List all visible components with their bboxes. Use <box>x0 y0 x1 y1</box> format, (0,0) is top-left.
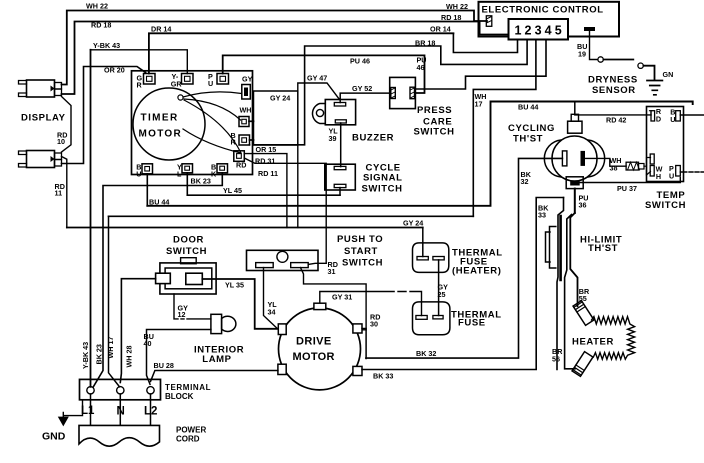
svg-text:GY 52: GY 52 <box>352 84 372 93</box>
stub BR terminal to aux box <box>250 139 254 141</box>
svg-text:HEATER: HEATER <box>572 336 614 347</box>
wire PU 37 (to temp switch PU area) <box>575 178 681 183</box>
heater element coil <box>592 317 635 360</box>
terminal YL <box>182 164 193 173</box>
dryness sensor contact 1 <box>598 57 603 62</box>
svg-text:40: 40 <box>144 339 152 348</box>
wire YL 39 (buzzer bottom to cycle signal switch) <box>340 123 342 167</box>
RIGHT <box>362 102 704 377</box>
svg-text:OR 14: OR 14 <box>430 25 451 34</box>
buzzer BZ1 <box>313 100 356 125</box>
svg-text:U: U <box>669 171 674 180</box>
svg-text:START: START <box>344 246 378 257</box>
svg-text:19: 19 <box>578 49 586 58</box>
wire BK 32 (cycling left terminal down) <box>366 158 563 358</box>
svg-text:U: U <box>208 79 213 88</box>
svg-text:R: R <box>137 81 143 90</box>
riser GY 24 down to thermal fuse <box>422 228 424 257</box>
resistor to temp switch links <box>644 158 651 176</box>
temp switch terminal PU <box>676 166 704 177</box>
heater terminal bottom (BR 56) <box>572 352 593 377</box>
svg-text:34: 34 <box>268 308 276 317</box>
svg-text:30: 30 <box>370 320 378 329</box>
svg-text:12: 12 <box>178 310 186 319</box>
thermal fuse (heater) F1 <box>413 243 449 273</box>
wire PU 36 / PU 37 from cycling bottom <box>574 189 576 213</box>
bus RD 11 / GY 24 (long bottom bus) <box>67 227 423 229</box>
svg-text:BK 23: BK 23 <box>191 176 211 185</box>
svg-text:CORD: CORD <box>176 434 200 443</box>
wires to power cord <box>91 394 151 425</box>
terminal RD <box>234 151 245 162</box>
wire EC terminal 4 to press care switch right <box>415 40 546 90</box>
svg-text:GN: GN <box>663 70 674 79</box>
timer cam pivot <box>178 95 183 100</box>
svg-text:RD 18: RD 18 <box>91 21 111 30</box>
wire BU 19 (flat terminal down to dryness sensor) <box>590 31 598 60</box>
svg-text:DRIVE: DRIVE <box>296 336 332 348</box>
svg-text:SWITCH: SWITCH <box>166 246 207 257</box>
svg-text:39: 39 <box>329 134 337 143</box>
bus YL 45 (timer YL to cycle signal switch) <box>187 194 340 196</box>
svg-text:BK 33: BK 33 <box>373 371 393 380</box>
wire RD 31 diag (push-to-start right up) <box>308 263 326 264</box>
svg-text:10: 10 <box>57 137 65 146</box>
wire Y-BK 43 top run (to timer Y-GR terminal) <box>91 50 188 74</box>
terminal WH <box>239 117 249 127</box>
wire RD 30 (push-to-start right down to motor) <box>301 268 367 330</box>
TIMER <box>94 40 528 387</box>
svg-text:POWER: POWER <box>176 425 206 434</box>
svg-text:TH'ST: TH'ST <box>588 243 618 254</box>
wire GY 31 (motor top to thermal fuse lower) <box>320 292 422 316</box>
svg-text:SENSOR: SENSOR <box>592 85 636 96</box>
cycling thermostat TH1 <box>544 114 604 188</box>
power cord <box>79 425 160 446</box>
svg-text:N: N <box>117 406 125 418</box>
svg-text:DR 14: DR 14 <box>151 25 171 34</box>
wire GY 47 (aux box corner to buzzer) <box>298 83 340 100</box>
terminal BK <box>217 164 228 173</box>
svg-text:RD 42: RD 42 <box>606 115 626 124</box>
svg-text:U: U <box>670 115 675 124</box>
push to start switch S4 <box>247 250 319 270</box>
wire BK 23 (timer BK terminal down-left to terminal block) <box>94 173 223 387</box>
svg-text:ELECTRONIC CONTROL: ELECTRONIC CONTROL <box>482 5 604 16</box>
temp switch terminal WH <box>650 166 654 177</box>
wire Y-BK 43 (vertical to terminal block L1) <box>90 50 92 387</box>
svg-text:L2: L2 <box>144 406 157 418</box>
svg-text:CYCLING: CYCLING <box>508 123 555 134</box>
svg-text:GY 24: GY 24 <box>403 219 423 228</box>
wire RD timer terminal right run (RD 11 riser) <box>244 154 287 228</box>
svg-text:25: 25 <box>438 290 446 299</box>
resistor KKK <box>626 162 644 170</box>
hi-limit thermostat TH2 <box>546 198 578 370</box>
svg-text:GY 24: GY 24 <box>270 94 290 103</box>
door switch S3 <box>156 258 216 294</box>
svg-text:55: 55 <box>579 294 587 303</box>
wire BU 40 (lamp to terminal block L2) <box>147 330 211 385</box>
wire BK 32 stub (motor upper-right) <box>362 329 366 359</box>
svg-text:36: 36 <box>579 201 587 210</box>
wire BU 44 (timer BU terminal down to bus) <box>146 174 148 206</box>
svg-text:LAMP: LAMP <box>202 354 231 365</box>
svg-text:33: 33 <box>538 211 546 220</box>
svg-text:12345: 12345 <box>515 24 565 38</box>
svg-text:BK 32: BK 32 <box>416 349 436 358</box>
svg-text:BK 23: BK 23 <box>95 344 104 364</box>
display connector J2 <box>19 151 62 168</box>
svg-text:WH: WH <box>240 106 252 115</box>
temp switch terminal BU <box>676 111 704 121</box>
svg-text:38: 38 <box>610 163 618 172</box>
wire BK 33 (hi-limit to motor bus) <box>362 198 563 370</box>
svg-text:H: H <box>656 172 661 181</box>
bus BU 44 (timer BU right, up, to cycling thermostat) <box>147 102 692 206</box>
svg-text:TIMER: TIMER <box>141 113 179 124</box>
wire BU44 into cycling stem <box>574 102 576 115</box>
svg-text:WH 28: WH 28 <box>125 346 134 368</box>
wire YL 34 (push-to-start left to motor) <box>264 268 277 328</box>
ECONTROL <box>415 2 662 217</box>
svg-text:BU 28: BU 28 <box>154 361 174 370</box>
heater terminal top (BR 55) <box>573 301 594 326</box>
EC terminal strip 1 2 3 4 5 <box>509 19 569 40</box>
svg-text:DISPLAY: DISPLAY <box>21 113 66 124</box>
wire WH 17 (EC terminal 3 down-left-down to bus) <box>473 40 536 217</box>
svg-text:D: D <box>656 114 661 123</box>
svg-text:U: U <box>136 169 141 178</box>
terminal BR <box>239 135 250 145</box>
svg-text:PU 37: PU 37 <box>617 184 637 193</box>
BUZZER-PCS-CSS <box>313 77 416 194</box>
svg-text:GR: GR <box>171 80 183 89</box>
electronic control box <box>479 2 620 37</box>
wire RD 31 (timer RD terminal to push-to-start) <box>244 158 326 263</box>
svg-text:Y-BK 43: Y-BK 43 <box>81 342 90 369</box>
svg-text:WH 22: WH 22 <box>446 2 468 11</box>
svg-text:OR 20: OR 20 <box>104 66 125 75</box>
svg-text:YL 45: YL 45 <box>223 186 242 195</box>
svg-text:11: 11 <box>55 189 63 198</box>
terminal BU <box>142 164 153 174</box>
svg-text:BU 44: BU 44 <box>518 103 538 112</box>
svg-text:R: R <box>231 137 237 146</box>
EC input terminal (hatched) <box>486 16 492 26</box>
wire PU 46 (timer PU up, right, down to press care switch) <box>223 55 425 93</box>
wire RD 11 (connector J2 down to bus) <box>62 157 67 228</box>
wire YL 45 (timer YL terminal down to bus) <box>186 173 188 195</box>
temp switch terminal mid-left <box>650 154 654 164</box>
svg-text:PRESS: PRESS <box>417 105 452 116</box>
svg-text:DOOR: DOOR <box>173 235 204 246</box>
svg-text:TERMINAL: TERMINAL <box>165 383 211 392</box>
wire DR 14 (timer GR terminal up and right) <box>149 33 454 73</box>
wire GY 25 (fuse to fuse) <box>438 260 440 316</box>
svg-text:OR 15: OR 15 <box>256 145 277 154</box>
svg-text:RD 18: RD 18 <box>441 13 461 22</box>
wire WH 38 (cycling right terminal to resistor) <box>585 158 626 166</box>
wire BK 33 stub (motor lower-right) <box>361 369 363 371</box>
terminal PU <box>217 74 229 85</box>
wire BU 28 (motor lower-left to terminal block L2) <box>151 371 278 382</box>
aux switch box GY24 <box>254 91 298 145</box>
wire door switch left (WH 28 to terminal block N) <box>120 279 155 383</box>
ground GN <box>647 81 662 95</box>
svg-text:RD: RD <box>236 160 246 169</box>
svg-text:BR 18: BR 18 <box>415 38 435 47</box>
svg-text:GY: GY <box>242 75 253 84</box>
riser WH 17 down to terminal block N <box>109 216 120 386</box>
wire RD 10 (connector J1 to connector J2) <box>62 97 72 153</box>
svg-text:FUSE: FUSE <box>458 318 486 329</box>
svg-text:GND: GND <box>42 430 66 442</box>
svg-text:PU 46: PU 46 <box>350 57 370 66</box>
svg-text:GY 31: GY 31 <box>332 293 352 302</box>
terminal GY <box>242 85 251 100</box>
wire RD 42 (cycling stem to temp switch RD) <box>575 114 651 116</box>
svg-text:RD 11: RD 11 <box>258 169 278 178</box>
terminal block TB1 <box>80 379 161 399</box>
wire YL 35 (door switch to drive motor) <box>202 279 279 329</box>
wire WH 22 (connector J1 to electronic control) <box>62 11 488 85</box>
BU19 flat terminal <box>585 28 595 31</box>
thermal fuse F2 <box>413 302 450 335</box>
svg-text:32: 32 <box>521 177 529 186</box>
svg-text:BU 44: BU 44 <box>149 197 169 206</box>
drive motor M1 <box>278 303 362 390</box>
svg-text:31: 31 <box>328 267 336 276</box>
svg-text:SWITCH: SWITCH <box>414 127 455 138</box>
terminal Y-GR <box>182 74 194 85</box>
svg-text:K: K <box>211 169 217 178</box>
svg-text:WH 17: WH 17 <box>106 337 115 359</box>
dryness sensor arm 2 <box>644 66 655 80</box>
cycle signal switch S2 <box>325 164 356 195</box>
stub WH terminal to aux box <box>249 120 254 122</box>
wire GY 12 (door switch down to lamp) <box>174 294 211 319</box>
svg-text:17: 17 <box>475 99 483 108</box>
wire OR 14 (down from line to EC terminal 1) <box>453 33 517 52</box>
svg-text:L1: L1 <box>81 405 95 417</box>
svg-text:46: 46 <box>417 63 425 72</box>
wire BR 18 (timer BR terminal right, up to EC terminal 2) <box>250 40 528 145</box>
bus WH 17 (terminal block N to EC drop) <box>109 215 474 217</box>
svg-text:SWITCH: SWITCH <box>342 257 383 268</box>
svg-text:WH 22: WH 22 <box>86 2 108 11</box>
wire GY 52 (buzzer top to press care switch left) <box>340 93 390 103</box>
svg-text:BLOCK: BLOCK <box>165 392 194 401</box>
svg-text:MOTOR: MOTOR <box>293 351 335 363</box>
svg-text:Y-BK 43: Y-BK 43 <box>93 41 120 50</box>
svg-text:56: 56 <box>552 354 560 363</box>
ground GND symbol <box>63 400 82 420</box>
WIRES-TOPLEFT <box>19 11 510 387</box>
temp switch terminal RD <box>650 111 655 121</box>
wire RD 18 (connector J1 to electronic control box) <box>62 22 510 95</box>
interior lamp DS1 <box>211 314 236 333</box>
svg-text:SIGNAL: SIGNAL <box>363 173 403 184</box>
svg-text:(HEATER): (HEATER) <box>452 266 501 277</box>
timer cam wires <box>183 92 242 97</box>
svg-text:TH'ST: TH'ST <box>513 133 543 144</box>
BUSES <box>67 102 693 387</box>
svg-text:PUSH TO: PUSH TO <box>337 234 383 245</box>
svg-text:GY 47: GY 47 <box>307 73 327 82</box>
svg-text:SWITCH: SWITCH <box>362 184 403 195</box>
terminal GR <box>144 74 156 85</box>
dryness sensor contact 2 <box>638 63 643 68</box>
timer motor circle <box>133 88 205 160</box>
wire GY 24 riser (aux box bottom to bus) <box>297 145 299 228</box>
svg-text:L: L <box>177 169 182 178</box>
BOTTOM <box>59 243 450 446</box>
svg-text:SWITCH: SWITCH <box>645 200 686 211</box>
svg-text:MOTOR: MOTOR <box>139 129 183 140</box>
svg-text:DRYNESS: DRYNESS <box>588 75 638 86</box>
wire OR 20 (connector J2 to timer GR terminal) <box>62 67 146 164</box>
temp switch S5 box <box>647 107 684 182</box>
press care switch S1 <box>390 77 416 108</box>
svg-text:YL 35: YL 35 <box>225 281 244 290</box>
display connector J1 <box>19 80 62 97</box>
svg-text:RD 31: RD 31 <box>255 157 275 166</box>
svg-text:BUZZER: BUZZER <box>352 133 394 144</box>
timer motor box <box>132 71 253 175</box>
dryness sensor arm 1 <box>604 59 634 61</box>
